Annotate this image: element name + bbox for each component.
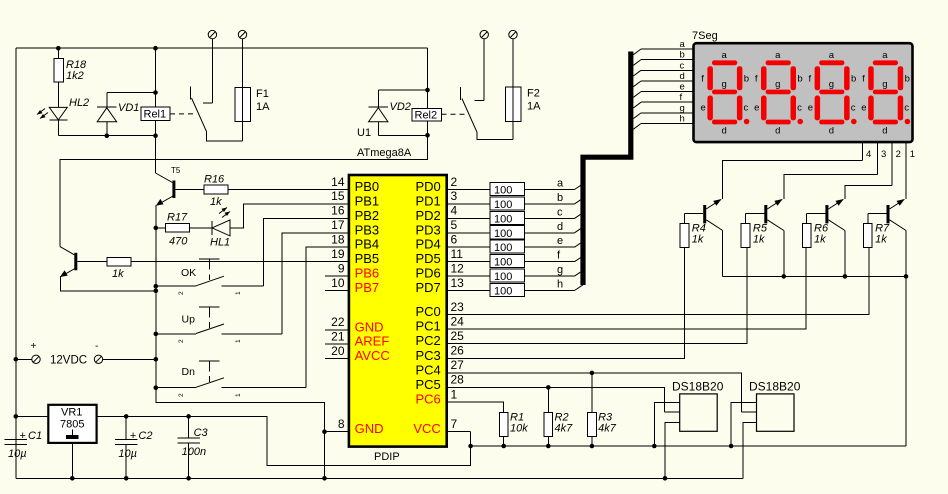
svg-text:c: c: [680, 60, 685, 71]
svg-text:c: c: [744, 103, 749, 114]
svg-text:23: 23: [451, 300, 465, 314]
svg-text:2: 2: [178, 339, 185, 343]
svg-text:F1: F1: [256, 88, 269, 100]
capacitor C1: [5, 416, 43, 478]
wire bus to display d: [633, 71, 694, 87]
svg-text:PD7: PD7: [416, 280, 441, 295]
svg-text:PC3: PC3: [416, 348, 441, 363]
svg-text:VR1: VR1: [61, 407, 82, 419]
svg-text:PD4: PD4: [416, 237, 441, 252]
resistor R17: [156, 212, 190, 248]
relay contact K1: [190, 87, 242, 142]
svg-text:100: 100: [494, 257, 512, 269]
wire VT emitter return: [61, 276, 156, 291]
svg-text:PB3: PB3: [355, 222, 380, 237]
svg-text:e: e: [680, 82, 685, 93]
wire Dn to pin18 PB4: [306, 247, 349, 388]
svg-text:VCC: VCC: [413, 421, 440, 436]
display pin 3: [877, 142, 886, 174]
diode VD1: [97, 93, 139, 136]
wire bottom GND rail: [16, 477, 743, 479]
svg-text:20: 20: [331, 344, 345, 358]
IC U1 ATmega8A body: [349, 175, 447, 447]
regulator VR1 7805: [16, 405, 97, 479]
svg-text:PB2: PB2: [355, 208, 380, 223]
wire T5 emitter down: [155, 205, 157, 228]
wire Q4 emitter to display pin1: [905, 197, 907, 199]
terminal screw 3: [474, 30, 488, 100]
resistor 100 segment d (PD3): [447, 221, 583, 240]
svg-text:3: 3: [451, 189, 458, 203]
svg-text:+: +: [20, 430, 26, 442]
svg-text:C1: C1: [28, 430, 42, 442]
svg-text:g: g: [722, 79, 727, 90]
pin names right column: [413, 179, 440, 436]
wire main vertical button column: [156, 228, 325, 478]
wire HL1 to pin15 PB1: [230, 204, 349, 228]
svg-text:a: a: [557, 178, 564, 190]
svg-text:10µ: 10µ: [8, 448, 27, 460]
svg-text:PB4: PB4: [355, 237, 380, 252]
LED HL2: [37, 97, 89, 136]
svg-text:4k7: 4k7: [598, 423, 617, 435]
svg-text:PB5: PB5: [355, 251, 380, 266]
display digit 1: [701, 50, 750, 137]
svg-text:Dn: Dn: [182, 366, 196, 378]
svg-text:HL2: HL2: [69, 97, 89, 109]
relay contact K2: [461, 87, 513, 140]
wire dashed Rel2 link: [442, 113, 468, 115]
wire PC4 to DS18B20-2 DQ: [447, 373, 742, 412]
wire PC2 to R5: [447, 247, 747, 343]
svg-text:1k: 1k: [210, 196, 222, 208]
svg-text:12: 12: [451, 261, 465, 275]
svg-text:16: 16: [331, 204, 345, 218]
svg-text:GND: GND: [355, 421, 384, 436]
wire bus to display f: [633, 92, 694, 108]
svg-text:7: 7: [451, 417, 458, 431]
resistor R16: [175, 174, 228, 209]
svg-text:PB0: PB0: [355, 179, 380, 194]
wire Q2 emitter to display pin3: [784, 174, 878, 198]
svg-text:+: +: [31, 341, 37, 352]
svg-text:d: d: [680, 71, 685, 82]
svg-text:PC6: PC6: [416, 392, 441, 407]
display digit 2: [754, 50, 803, 137]
svg-text:1: 1: [235, 339, 242, 343]
pin numbers left: [331, 175, 345, 431]
svg-text:9: 9: [338, 261, 345, 275]
resistor 1k base: [77, 257, 131, 280]
svg-text:R17: R17: [167, 212, 188, 224]
svg-text:PB6: PB6: [355, 266, 380, 281]
svg-text:h: h: [680, 114, 685, 125]
wire bus to display h: [633, 114, 694, 130]
svg-text:4k7: 4k7: [555, 423, 574, 435]
wire bus to display g: [633, 103, 694, 119]
svg-text:PD0: PD0: [416, 179, 441, 194]
wire OK to pin16 PB2: [264, 218, 349, 286]
svg-text:8: 8: [338, 417, 345, 431]
svg-text:AVCC: AVCC: [355, 348, 390, 363]
wire VCC stub: [447, 431, 471, 433]
svg-text:13: 13: [451, 276, 465, 290]
wire dashed Rel1 link: [170, 113, 197, 115]
pin numbers right: [451, 175, 465, 431]
resistor 100 segment h (PD7): [447, 279, 583, 298]
svg-text:1k: 1k: [875, 234, 887, 246]
svg-text:VD1: VD1: [118, 102, 139, 114]
pushbutton OK: [156, 259, 264, 295]
svg-text:d: d: [557, 221, 563, 233]
pin stubs PB6 PB7 GND8 AREF AVCC GND22: [325, 276, 349, 432]
resistor 100 segment b (PD1): [447, 192, 583, 211]
svg-text:GND: GND: [355, 319, 384, 334]
svg-text:15: 15: [331, 189, 345, 203]
svg-text:18: 18: [331, 233, 345, 247]
svg-text:DS18B20: DS18B20: [672, 380, 724, 394]
wire PC5 to DS18B20-1 DQ: [447, 387, 665, 412]
svg-text:2: 2: [896, 149, 901, 160]
terminal 12VDC plus: [16, 341, 40, 363]
relay coil Rel1: [141, 48, 170, 136]
svg-text:PC2: PC2: [416, 333, 441, 348]
svg-text:f: f: [680, 92, 683, 103]
svg-text:10µ: 10µ: [118, 448, 137, 460]
wire R16 to pin14 PB0: [228, 189, 349, 191]
capacitor C2: [115, 416, 153, 478]
wire PC0 to R7: [447, 247, 869, 314]
svg-text:100: 100: [494, 213, 512, 225]
svg-text:27: 27: [451, 358, 465, 372]
svg-text:100: 100: [494, 228, 512, 240]
svg-text:f: f: [701, 74, 704, 85]
sensor DS18B20 #1: [654, 380, 723, 479]
wire bus to display e: [633, 82, 694, 98]
svg-text:4: 4: [866, 149, 871, 160]
svg-text:PB1: PB1: [355, 193, 380, 208]
svg-text:b: b: [680, 50, 685, 61]
svg-text:PC5: PC5: [416, 377, 441, 392]
wire VD2 top to Rel2 vertical: [378, 89, 427, 91]
svg-text:3: 3: [881, 149, 886, 160]
resistor 100 segment c (PD2): [447, 206, 583, 225]
svg-text:470: 470: [169, 236, 188, 248]
svg-text:1A: 1A: [527, 101, 541, 113]
display pin 1: [906, 142, 915, 197]
relay coil Rel2: [412, 108, 442, 135]
resistor 100 segment e (PD4): [447, 235, 583, 254]
svg-text:T5: T5: [171, 166, 181, 175]
svg-text:c: c: [557, 206, 563, 218]
svg-text:b: b: [557, 192, 563, 204]
svg-text:2: 2: [451, 175, 458, 189]
wire VD2 bottom to Rel2 vertical: [378, 134, 427, 136]
svg-text:e: e: [557, 235, 563, 247]
display digit 3: [808, 50, 857, 137]
display digit 4: [861, 50, 910, 137]
svg-text:10: 10: [331, 276, 345, 290]
svg-text:100: 100: [494, 199, 512, 211]
svg-text:PD1: PD1: [416, 193, 441, 208]
wire 5V rail bottom: [471, 445, 906, 447]
svg-text:21: 21: [331, 330, 345, 344]
wire left +12V vertical rail: [15, 48, 17, 478]
wire PC3 to R4: [447, 247, 685, 358]
svg-text:DS18B20: DS18B20: [749, 380, 801, 394]
svg-text:+: +: [130, 430, 136, 442]
capacitor C3: [177, 416, 208, 478]
LED HL1: [190, 208, 231, 249]
wire VD1 to Rel1 top: [107, 92, 156, 94]
svg-text:1k: 1k: [692, 234, 704, 246]
wire collector common rail: [723, 275, 906, 277]
svg-text:4: 4: [451, 204, 458, 218]
resistor 100 segment g (PD6): [447, 264, 583, 283]
wire bus to display a: [633, 39, 694, 55]
svg-text:7Seg: 7Seg: [692, 30, 718, 42]
svg-text:PC4: PC4: [416, 362, 441, 377]
svg-text:2: 2: [178, 291, 185, 295]
svg-text:d: d: [722, 126, 727, 137]
terminal 12VDC minus: [94, 341, 156, 363]
transistor VT left: [60, 247, 77, 277]
sensor DS18B20 #2: [731, 380, 801, 479]
svg-text:1k: 1k: [112, 268, 124, 280]
svg-text:Rel1: Rel1: [144, 109, 167, 121]
svg-text:14: 14: [331, 175, 345, 189]
svg-text:100: 100: [494, 286, 512, 298]
wire 1k to pin19 PB5: [131, 261, 349, 263]
svg-text:25: 25: [451, 329, 465, 343]
svg-text:Rel2: Rel2: [415, 110, 438, 122]
svg-text:26: 26: [451, 344, 465, 358]
svg-text:b: b: [744, 74, 749, 85]
svg-text:1k: 1k: [814, 234, 826, 246]
svg-text:h: h: [557, 279, 563, 291]
pushbutton Up: [156, 307, 282, 343]
svg-text:AREF: AREF: [355, 334, 390, 349]
wire bus to display c: [633, 60, 694, 76]
pin names left column: [355, 179, 390, 436]
svg-text:ATmega8A: ATmega8A: [357, 147, 412, 159]
svg-text:1k2: 1k2: [66, 70, 84, 82]
wire +12V top rail: [16, 47, 428, 49]
svg-text:1: 1: [910, 149, 915, 160]
svg-text:PD6: PD6: [416, 266, 441, 281]
svg-text:PB7: PB7: [355, 280, 380, 295]
svg-text:PDIP: PDIP: [374, 451, 400, 463]
svg-text:a: a: [722, 50, 728, 61]
svg-text:100n: 100n: [182, 446, 206, 458]
svg-text:17: 17: [331, 218, 345, 232]
transistor Q4 with resistor R7: [863, 199, 906, 276]
svg-text:28: 28: [451, 373, 465, 387]
fuse F2: [506, 30, 542, 139]
svg-text:R16: R16: [204, 174, 225, 186]
svg-text:PD2: PD2: [416, 208, 441, 223]
svg-text:22: 22: [331, 315, 345, 329]
diode VD2: [369, 90, 411, 135]
svg-text:19: 19: [331, 247, 345, 261]
svg-text:PD3: PD3: [416, 222, 441, 237]
svg-text:100: 100: [494, 271, 512, 283]
svg-text:2: 2: [178, 393, 185, 397]
svg-text:11: 11: [451, 247, 464, 261]
resistor R1: [499, 412, 528, 447]
svg-text:a: a: [680, 39, 686, 50]
wire bus to display b: [633, 50, 694, 66]
svg-text:VD2: VD2: [390, 101, 411, 113]
resistor 100 segment f (PD5): [447, 250, 583, 269]
wire Q4 collector down to 5V rail: [905, 231, 907, 447]
svg-text:-: -: [95, 341, 98, 352]
svg-text:PD5: PD5: [416, 251, 441, 266]
svg-text:PC1: PC1: [416, 319, 441, 334]
pushbutton Dn: [156, 361, 306, 397]
wire HL2/VD1/Rel1 cathode bottom: [58, 135, 155, 137]
resistor R18: [54, 48, 87, 107]
svg-text:g: g: [680, 103, 685, 114]
svg-text:OK: OK: [181, 267, 196, 279]
wire Q3 emitter to display pin2: [845, 186, 892, 199]
svg-text:100: 100: [494, 242, 512, 254]
svg-text:10k: 10k: [510, 423, 528, 435]
wire Q1 emitter to display pin4: [723, 161, 863, 199]
transistor Q2 with resistor R5: [741, 199, 784, 276]
svg-text:C2: C2: [138, 430, 152, 442]
svg-text:1: 1: [235, 393, 242, 397]
display pin 4: [863, 142, 872, 161]
svg-text:7805: 7805: [60, 419, 84, 431]
svg-text:C3: C3: [194, 427, 209, 439]
svg-text:g: g: [557, 264, 563, 276]
svg-text:U1: U1: [357, 127, 371, 139]
svg-text:100: 100: [494, 185, 512, 197]
wire Up to pin17 PB3: [282, 233, 349, 334]
wire Rel2 return to left transistor collector: [60, 135, 428, 246]
resistor 100 segment a (PD0): [447, 178, 583, 197]
svg-text:12VDC: 12VDC: [50, 355, 87, 367]
display pin 2: [892, 142, 901, 185]
svg-text:Up: Up: [182, 314, 196, 326]
resistor R2: [544, 387, 573, 446]
transistor Q1 with resistor R4: [680, 199, 723, 276]
resistor R3: [588, 373, 617, 446]
bus thick segment wire: [583, 52, 631, 286]
wire top rail corner down to Rel2: [427, 48, 429, 108]
wire PC1 to R6: [447, 247, 806, 329]
svg-text:1A: 1A: [256, 101, 270, 113]
svg-text:HL1: HL1: [210, 237, 230, 249]
svg-text:6: 6: [451, 233, 458, 247]
svg-text:F2: F2: [527, 88, 540, 100]
svg-text:5: 5: [451, 218, 458, 232]
svg-text:1k: 1k: [753, 234, 765, 246]
transistor T5: [156, 136, 181, 206]
svg-text:1: 1: [235, 291, 242, 295]
terminal screw 1: [203, 30, 217, 103]
transistor Q3 with resistor R6: [802, 199, 845, 276]
fuse F1: [235, 30, 270, 141]
svg-text:1: 1: [451, 387, 458, 401]
wire 5V rail from VR1: [97, 416, 471, 465]
display 7Seg module body: [694, 43, 913, 142]
svg-text:e: e: [701, 103, 706, 114]
wire PC6 to R1: [447, 402, 504, 412]
svg-text:PC0: PC0: [416, 304, 441, 319]
svg-text:24: 24: [451, 315, 465, 329]
